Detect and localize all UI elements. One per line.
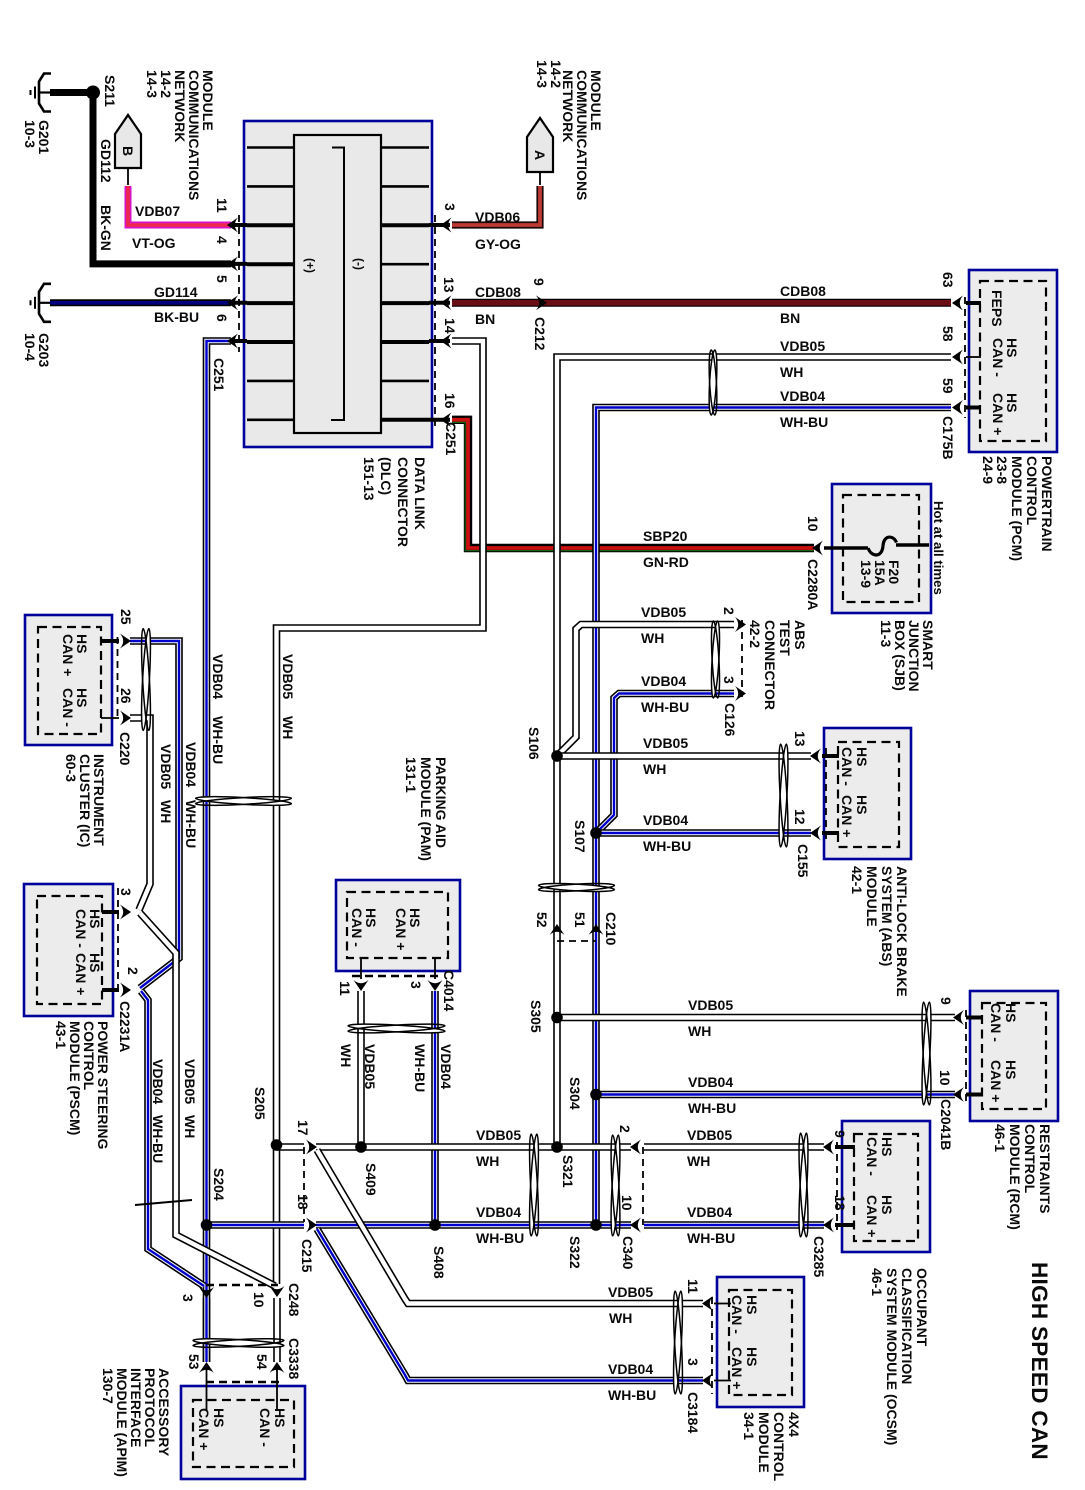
svg-text:VDB05: VDB05 (687, 1127, 732, 1143)
svg-text:VDB06: VDB06 (475, 209, 520, 225)
splice S321 (551, 1141, 563, 1153)
twisted pair symbol at C210 (538, 882, 614, 893)
svg-text:Hot at all times: Hot at all times (931, 501, 946, 595)
svg-text:52: 52 (534, 912, 550, 928)
svg-text:DATA LINK: DATA LINK (412, 457, 428, 530)
wire VDB05 WH C215 pin 17 diagonal to 4X4 pin 11 (317, 1150, 703, 1304)
svg-text:C126: C126 (722, 703, 738, 737)
arrow DLC pin 4 (227, 256, 238, 271)
connector C248 dashed line (206, 1284, 278, 1287)
PSCM pin stubs (102, 910, 119, 914)
svg-text:CONTROL: CONTROL (771, 1412, 787, 1482)
svg-text:HS: HS (854, 747, 870, 766)
svg-text:OCCUPANT: OCCUPANT (914, 1268, 930, 1347)
module 4X4 box (717, 1277, 804, 1407)
svg-text:WH: WH (643, 761, 666, 777)
connector C175B dashed line (964, 297, 966, 418)
svg-text:VDB04: VDB04 (608, 1361, 653, 1377)
svg-text:CDB08: CDB08 (475, 284, 521, 300)
svg-text:4X4: 4X4 (786, 1412, 802, 1437)
svg-text:(+): (+) (303, 258, 317, 273)
svg-text:VDB05: VDB05 (608, 1284, 653, 1300)
svg-text:CAN -: CAN - (257, 1408, 273, 1447)
svg-text:11: 11 (685, 1279, 701, 1294)
wire GD114 BK-BU ground to DLC pin 5 (50, 299, 231, 306)
arrow PSCM pin 2 (120, 983, 131, 998)
svg-text:C175B: C175B (940, 416, 956, 460)
svg-text:CONNECTOR: CONNECTOR (395, 457, 411, 547)
svg-text:3: 3 (685, 1358, 701, 1366)
svg-text:VT-OG: VT-OG (132, 235, 176, 251)
module PCM box (969, 270, 1057, 452)
svg-text:HS: HS (1003, 1060, 1019, 1079)
OCSM pin stubs (835, 1145, 855, 1149)
svg-text:WH: WH (182, 1115, 198, 1138)
arrow ABS pin 12 (810, 826, 821, 841)
svg-text:C248: C248 (286, 1283, 302, 1317)
arrow IC pin 26 (120, 711, 131, 726)
svg-text:VDB05: VDB05 (280, 654, 296, 699)
svg-text:13: 13 (441, 277, 457, 293)
svg-text:HS: HS (211, 1408, 227, 1427)
splice S106 (551, 750, 563, 762)
connector C3184 dashed line (711, 1297, 713, 1394)
twisted pair symbol at IC (140, 628, 152, 730)
arrow OCSM pin 18 (823, 1218, 834, 1233)
svg-text:POWERTRAIN: POWERTRAIN (1039, 456, 1055, 552)
wire VDB05 WH S205 to C215 pin 17 (277, 1143, 305, 1151)
svg-text:FEPS: FEPS (989, 290, 1005, 327)
wire VDB05 WH PAM pin 11 to S409 (357, 991, 365, 1147)
svg-text:VDB04: VDB04 (643, 812, 688, 828)
svg-text:C155: C155 (795, 844, 811, 878)
svg-text:10: 10 (619, 1195, 635, 1211)
svg-text:MODULE (RCM): MODULE (RCM) (1007, 1124, 1023, 1230)
wire VDB05 WH PSCM pin 3 to C248 pin 10 (140, 913, 275, 1286)
svg-text:13-9: 13-9 (858, 560, 874, 588)
svg-text:CAN -: CAN - (864, 1137, 880, 1176)
svg-text:S106: S106 (526, 727, 542, 760)
IC pin stubs (101, 639, 119, 643)
svg-text:S322: S322 (567, 1236, 583, 1269)
svg-text:HS: HS (854, 795, 870, 814)
splice S304 (590, 1089, 602, 1101)
svg-text:S409: S409 (363, 1163, 379, 1196)
arrow 4X4 pin 11 (702, 1296, 713, 1311)
wire VDB05 WH DLC pin 14 down-left main (277, 341, 484, 1144)
svg-text:C251: C251 (443, 422, 459, 456)
arrow PCM pin 59 (952, 400, 963, 415)
svg-text:SYSTEM MODULE (OCSM): SYSTEM MODULE (OCSM) (884, 1268, 900, 1445)
arrow PCM pin 63 (952, 296, 963, 311)
svg-text:14: 14 (442, 318, 458, 334)
svg-text:VDB04: VDB04 (641, 673, 686, 689)
svg-text:53: 53 (186, 1354, 202, 1370)
svg-text:HS: HS (744, 1295, 760, 1314)
svg-text:46-1: 46-1 (869, 1268, 885, 1296)
arrow OCSM pin 9 (823, 1140, 834, 1155)
wire VDB04 WH-BU C215 pin 18 diagonal to 4X4 pin 3 (317, 1229, 703, 1381)
arrow C248 pin 3 (199, 1287, 214, 1298)
connector C220 dashed line (117, 637, 119, 718)
wire VDB04 WH-BU C248 to C3338 pin 53 (203, 1298, 211, 1362)
svg-text:HIGH SPEED CAN: HIGH SPEED CAN (1027, 1262, 1052, 1460)
module OCSM box (842, 1121, 930, 1252)
splice S408 (429, 1219, 441, 1231)
svg-text:13: 13 (792, 731, 808, 747)
svg-text:TEST: TEST (777, 620, 793, 656)
fuse F20 element (824, 546, 868, 549)
svg-text:25: 25 (118, 609, 134, 625)
arrow DLC pin 6 (227, 334, 238, 349)
ground G203 (39, 284, 51, 322)
ABS pin stubs (822, 754, 839, 758)
svg-text:S211: S211 (102, 75, 118, 107)
splice S305 (551, 1012, 563, 1024)
svg-text:VDB04: VDB04 (687, 1204, 732, 1220)
svg-text:WH-BU: WH-BU (780, 414, 828, 430)
arrow C4014 pin 3 (428, 980, 443, 991)
module DLC box (244, 121, 432, 447)
svg-text:10: 10 (251, 1292, 267, 1308)
svg-text:GN-RD: GN-RD (643, 554, 689, 570)
wire VDB05 WH C248 to C3338 pin 54 (273, 1298, 281, 1362)
svg-text:CAN +: CAN + (864, 1195, 880, 1237)
svg-text:HS: HS (1003, 1003, 1019, 1022)
svg-text:(DLC): (DLC) (378, 457, 394, 495)
svg-text:S205: S205 (252, 1087, 268, 1120)
wire VDB05 WH C215 to OCSM pin 9 (316, 1143, 631, 1151)
svg-text:130-7: 130-7 (100, 1368, 116, 1404)
svg-text:C210: C210 (603, 912, 619, 946)
svg-text:BK-BU: BK-BU (154, 309, 199, 325)
svg-text:B: B (120, 146, 136, 156)
svg-text:GY-OG: GY-OG (475, 236, 521, 252)
arrow DLC pin 14 (441, 334, 452, 349)
module ABS box (824, 728, 911, 859)
svg-text:HS: HS (879, 1137, 895, 1156)
svg-text:CAN +: CAN + (988, 1060, 1004, 1102)
svg-text:WH-BU: WH-BU (608, 1387, 656, 1403)
wire VDB04 WH-BU C215 to C340 pin 10 (316, 1221, 631, 1229)
splice S107 (590, 827, 602, 839)
connector C126 dashed line (741, 620, 743, 697)
arrow C212 pin 9 (536, 295, 547, 310)
wire VDB06 GY-OG connector A to DLC pin 3 (452, 186, 540, 225)
svg-text:WH: WH (609, 1310, 632, 1326)
svg-text:HS: HS (744, 1347, 760, 1366)
svg-text:HS: HS (272, 1408, 288, 1427)
svg-text:GD112: GD112 (98, 139, 114, 183)
svg-text:5: 5 (214, 275, 230, 283)
wire VDB05 WH S106 to ABS pin 13 (557, 752, 811, 760)
arrow RCM pin 9 (953, 1010, 964, 1025)
svg-text:C215: C215 (299, 1239, 315, 1273)
svg-text:2: 2 (721, 607, 737, 615)
svg-text:VDB04: VDB04 (183, 742, 199, 787)
svg-text:10-4: 10-4 (22, 333, 38, 361)
svg-text:VDB05: VDB05 (641, 604, 686, 620)
connector C251 dashed line right (434, 215, 436, 430)
arrow C215 pin 18 (306, 1218, 317, 1233)
arrow ABS test pin 2 (735, 617, 746, 632)
svg-text:2: 2 (617, 1125, 633, 1133)
svg-text:CONTROL: CONTROL (1024, 456, 1040, 526)
svg-text:151-13: 151-13 (361, 457, 377, 501)
svg-text:A: A (532, 150, 548, 160)
svg-text:C3184: C3184 (685, 1392, 701, 1433)
svg-text:VDB04: VDB04 (438, 1044, 454, 1089)
svg-text:WH-BU: WH-BU (687, 1230, 735, 1246)
svg-text:C4014: C4014 (441, 970, 457, 1011)
arrow C210 pin 52 (550, 924, 565, 935)
connector C3338/APIM dashed line (206, 1381, 283, 1384)
svg-text:24-9: 24-9 (980, 456, 996, 484)
svg-text:C2280A: C2280A (805, 559, 821, 610)
svg-text:10: 10 (805, 516, 821, 532)
arrow DLC pin 5 (227, 295, 238, 310)
wire VDB05 WH S106 down through C210 to S321 (553, 756, 561, 1147)
wire GD112 BK-GN ground segment (50, 89, 88, 96)
wire VDB04 WH-BU S107 to ABS test pin 3 (596, 694, 734, 834)
svg-text:BK-GN: BK-GN (98, 205, 114, 251)
wire VDB05 WH IC pin 26 down to PSCM pin 3 (130, 718, 150, 910)
svg-text:WH-BU: WH-BU (641, 699, 689, 715)
svg-text:42-2: 42-2 (747, 620, 763, 648)
svg-text:VDB05: VDB05 (362, 1044, 378, 1089)
svg-text:CAN +: CAN + (60, 634, 76, 676)
svg-text:VDB04: VDB04 (688, 1074, 733, 1090)
svg-text:VDB04: VDB04 (780, 388, 825, 404)
svg-text:WH-BU: WH-BU (412, 1044, 428, 1092)
svg-text:S408: S408 (431, 1246, 447, 1279)
twisted pair symbol left of mains (195, 795, 291, 807)
wire VDB05 WH S305 to RCM pin 9 (557, 1014, 955, 1022)
connector A pentagon (527, 118, 553, 172)
svg-text:11: 11 (214, 198, 230, 213)
arrow C3338 pin 53 (199, 1362, 214, 1373)
svg-text:VDB05: VDB05 (158, 744, 174, 789)
svg-text:11: 11 (337, 981, 353, 996)
wire VDB04 WH-BU S107 to ABS pin 12 (596, 829, 811, 837)
svg-text:C251: C251 (211, 358, 227, 392)
svg-text:WH: WH (687, 1153, 710, 1169)
svg-text:CAN +: CAN + (990, 393, 1006, 435)
svg-text:SBP20: SBP20 (643, 528, 688, 544)
svg-text:CAN -: CAN - (729, 1295, 745, 1334)
connector C155 dashed line (825, 748, 827, 840)
wire VDB04 WH-BU PAM pin 3 to S408 (431, 991, 439, 1225)
svg-text:17: 17 (295, 1120, 311, 1136)
connector A stem (539, 172, 541, 185)
svg-text:CAN -: CAN - (988, 1003, 1004, 1042)
svg-text:WH-BU: WH-BU (688, 1100, 736, 1116)
svg-text:59: 59 (940, 378, 956, 394)
svg-text:3: 3 (118, 888, 134, 896)
splice S409 (355, 1141, 367, 1153)
svg-text:VDB04: VDB04 (150, 1059, 166, 1104)
svg-text:VDB07: VDB07 (135, 203, 180, 219)
connector B stem (127, 168, 129, 185)
connector C3285 dashed line (836, 1142, 838, 1230)
arrow C215 pin 17 (306, 1140, 317, 1155)
svg-text:MODULE (PCM): MODULE (PCM) (1009, 456, 1025, 561)
PCM pin stubs (966, 301, 981, 305)
svg-text:MODULE (PAM): MODULE (PAM) (418, 757, 434, 861)
svg-text:BN: BN (780, 310, 800, 326)
svg-text:54: 54 (254, 1354, 270, 1370)
svg-text:VDB05: VDB05 (688, 997, 733, 1013)
svg-text:WH-BU: WH-BU (183, 800, 199, 848)
svg-text:C3338: C3338 (286, 1338, 302, 1379)
svg-text:RESTRAINTS: RESTRAINTS (1037, 1124, 1053, 1213)
connector C4014 dashed line (352, 975, 442, 978)
4X4 pin stubs (714, 1303, 731, 1305)
svg-text:CAN -: CAN - (990, 338, 1006, 377)
arrow C4014 pin 11 (354, 980, 369, 991)
wire SBP20 green stripe (452, 422, 814, 550)
twisted pair symbol PCM wires (708, 350, 718, 415)
DLC internal bus line (331, 148, 344, 421)
arrow ABS test pin 3 (735, 686, 746, 701)
svg-text:WH: WH (688, 1023, 711, 1039)
svg-text:9: 9 (938, 997, 954, 1005)
twisted pair symbol at OCSM (797, 1133, 810, 1237)
arrow PSCM pin 3 (120, 905, 131, 920)
module IC box (25, 615, 112, 745)
module PAM box (336, 880, 460, 971)
splice S205 (271, 1139, 283, 1151)
svg-text:46-1: 46-1 (992, 1124, 1008, 1152)
svg-text:ANTI-LOCK BRAKE: ANTI-LOCK BRAKE (894, 866, 910, 997)
svg-text:58: 58 (940, 326, 956, 342)
svg-text:C3285: C3285 (811, 1236, 827, 1277)
ground G201 (39, 74, 51, 112)
svg-text:3: 3 (721, 676, 737, 684)
module SJB box (832, 484, 931, 613)
arrow DLC pin 11 (227, 218, 238, 233)
svg-text:PARKING AID: PARKING AID (433, 757, 449, 848)
twisted pair symbol at C3338 (193, 1337, 284, 1349)
svg-text:12: 12 (792, 809, 808, 825)
svg-text:CAN +: CAN + (196, 1408, 212, 1450)
svg-text:BN: BN (475, 311, 495, 327)
svg-text:S321: S321 (560, 1155, 576, 1188)
svg-text:CONTROL: CONTROL (1022, 1124, 1038, 1194)
svg-text:14-3: 14-3 (534, 60, 550, 88)
svg-text:63: 63 (940, 272, 956, 288)
PAM pin 11 stub (360, 958, 362, 979)
svg-text:18: 18 (295, 1194, 311, 1210)
svg-text:CONNECTOR: CONNECTOR (762, 620, 778, 710)
arrow C3338 pin 54 (270, 1362, 285, 1373)
svg-text:3: 3 (442, 203, 458, 211)
wire VDB04 WH-BU IC pin 25 down to PSCM pin 2 (130, 641, 179, 988)
arrow C340 pin 10 (630, 1218, 641, 1233)
svg-text:10: 10 (937, 1070, 953, 1086)
svg-text:CAN -: CAN - (349, 908, 365, 947)
svg-text:S304: S304 (567, 1077, 583, 1110)
wire GD112 BK-GN S211 to DLC pin 4 (93, 98, 231, 264)
svg-text:S204: S204 (211, 1168, 227, 1201)
svg-text:2: 2 (125, 967, 141, 975)
DLC inner rectangle (294, 135, 381, 433)
wire VDB05 WH C340 to OCSM pin 9 seg2 (644, 1143, 824, 1151)
arrow PCM pin 58 (952, 350, 963, 365)
svg-text:GD114: GD114 (154, 284, 198, 300)
svg-text:CAN +: CAN + (729, 1347, 745, 1389)
svg-text:WH-BU: WH-BU (476, 1230, 524, 1246)
svg-text:3: 3 (180, 1294, 196, 1302)
svg-text:SYSTEM (ABS): SYSTEM (ABS) (879, 866, 895, 966)
svg-text:9: 9 (531, 278, 547, 286)
svg-text:C220: C220 (117, 732, 133, 766)
splice S204 (201, 1219, 213, 1231)
connector C215 dashed line (303, 1147, 305, 1222)
svg-text:HS: HS (879, 1195, 895, 1214)
arrow C340 pin 2 (630, 1140, 641, 1155)
svg-text:42-1: 42-1 (849, 866, 865, 894)
wire VDB04 WH-BU PCM pin 59 to S107 (596, 408, 951, 831)
connector C251 dashed line left (238, 215, 240, 352)
wire VDB05 WH PCM pin 58 to S106 (557, 357, 951, 753)
svg-text:CAN -: CAN - (60, 688, 76, 727)
svg-text:43-1: 43-1 (53, 1021, 69, 1049)
wire VDB04 WH-BU C340 to OCSM pin 18 (644, 1221, 824, 1229)
svg-text:4: 4 (214, 236, 230, 244)
svg-text:WH: WH (158, 800, 174, 823)
wire VDB04 WH-BU PSCM pin 2 to C248 pin 3 (141, 991, 204, 1286)
svg-text:WH-BU: WH-BU (150, 1115, 166, 1163)
wire SBP20 GN-RD DLC pin 16 to fuse F20 (452, 420, 814, 548)
svg-text:WH: WH (280, 716, 296, 739)
twisted pair symbol ABS wires (777, 744, 790, 847)
connector C340 dashed line (642, 1147, 644, 1225)
connector C2041B dashed line (965, 1010, 967, 1101)
wire VDB07 VT-OG connector B to DLC pin 11 (128, 186, 231, 225)
svg-text:60-3: 60-3 (63, 754, 79, 782)
svg-text:CAN +: CAN + (839, 795, 855, 837)
twisted pair symbol left of C340 (609, 1135, 621, 1236)
wire CDB08 BN DLC pin 13 to PCM pin 63 (452, 299, 951, 307)
APIM pin 54 stub (276, 1368, 278, 1410)
svg-text:WH-BU: WH-BU (210, 716, 226, 764)
twisted pair symbol RCM wires (920, 1002, 933, 1105)
twisted pair symbol at 4X4 (672, 1291, 685, 1394)
svg-text:9: 9 (832, 1130, 848, 1138)
connector C2231A dashed line (117, 888, 119, 996)
svg-text:51: 51 (572, 912, 588, 928)
arrow C210 pin 51 (589, 924, 604, 935)
svg-text:CDB08: CDB08 (780, 283, 826, 299)
svg-text:C340: C340 (620, 1236, 636, 1270)
svg-text:S107: S107 (572, 820, 588, 853)
svg-text:10-3: 10-3 (22, 120, 38, 148)
wire VDB04 WH-BU S107 down through C210 to S322 (592, 833, 600, 1225)
svg-text:C2041B: C2041B (938, 1099, 954, 1150)
arrow SJB fuse pin 10 (812, 541, 823, 556)
svg-text:34-1: 34-1 (741, 1412, 757, 1440)
svg-text:WH-BU: WH-BU (643, 838, 691, 854)
svg-text:ABS: ABS (792, 620, 808, 650)
svg-text:VDB05: VDB05 (476, 1127, 521, 1143)
wire VDB04 WH-BU S304 to RCM pin 10 (596, 1091, 955, 1099)
svg-text:VDB05: VDB05 (643, 735, 688, 751)
svg-text:MODULE: MODULE (864, 866, 880, 927)
svg-text:3: 3 (408, 981, 424, 989)
connector B pentagon (115, 115, 141, 168)
svg-text:MODULE: MODULE (756, 1412, 772, 1473)
